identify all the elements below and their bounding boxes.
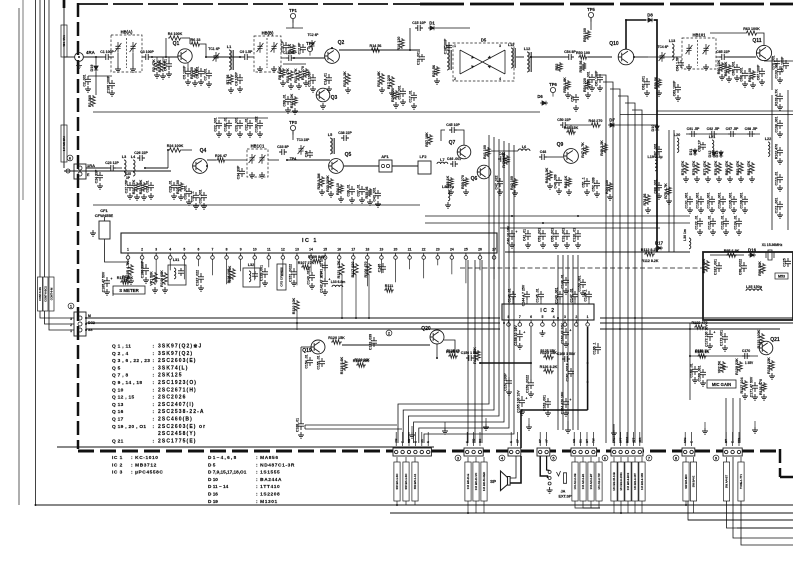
ground (288, 83, 294, 89)
capacitor C16 .001 (397, 85, 406, 99)
ground (720, 207, 726, 213)
svg-text:23: 23 (436, 248, 440, 252)
control wire rail (44, 0, 46, 277)
svg-text:IC 2: IC 2 (112, 462, 123, 468)
resistor R131 470 (759, 379, 766, 395)
resistor R18 120 (397, 37, 404, 51)
ground (705, 176, 711, 182)
capacitor C159 .0022 (525, 375, 534, 393)
svg-text:: KC-1010: : KC-1010 (131, 455, 159, 461)
IC1 pin 22 (422, 248, 426, 279)
svg-text:C66 .001: C66 .001 (731, 61, 735, 75)
capacitor R102 470 (774, 144, 783, 159)
svg-text:C151 .0022: C151 .0022 (288, 264, 292, 282)
ground (296, 83, 302, 89)
wire (613, 457, 615, 462)
svg-text:TP2: TP2 (306, 41, 314, 46)
ground (656, 193, 662, 199)
svg-text:R110 10K: R110 10K (292, 297, 296, 314)
wire RF input (83, 56, 103, 58)
ground (134, 194, 140, 200)
IC1 pin 12 (281, 248, 285, 277)
ground (257, 131, 263, 137)
svg-text:C2 .001: C2 .001 (82, 74, 86, 86)
capacitor C47 .022 (494, 175, 503, 189)
svg-text:R59 56: R59 56 (654, 77, 658, 89)
svg-text:Q 16: Q 16 (112, 409, 124, 415)
svg-text:11: 11 (267, 248, 271, 252)
ground (319, 189, 325, 195)
inductor L32 can (243, 263, 260, 287)
resistor R109 8.2K (308, 255, 326, 263)
svg-text:C19 .001: C19 .001 (416, 51, 420, 65)
wire (567, 421, 569, 427)
capacitor C37 .01 (356, 184, 365, 196)
svg-text:2SC2458(Y): 2SC2458(Y) (158, 431, 197, 437)
ground (700, 380, 706, 386)
ground (742, 81, 748, 87)
ground (563, 410, 569, 416)
resistor R34 10 (336, 183, 343, 195)
crystal X1 (762, 243, 783, 260)
svg-text:15: 15 (323, 248, 327, 252)
svg-text:1: 1 (454, 44, 456, 48)
svg-text:SW B/4-MIC: SW B/4-MIC (684, 474, 688, 489)
meter label S METER (113, 286, 145, 294)
svg-text:C105 .001: C105 .001 (728, 192, 732, 208)
transistor Q11 (752, 38, 771, 61)
trimmer capacitor (257, 42, 264, 53)
capacitor C51 .1 (581, 177, 590, 187)
ground (738, 176, 744, 182)
bus wire (500, 227, 660, 229)
ground (761, 394, 767, 400)
svg-text:HB(A): HB(A) (121, 30, 133, 35)
IC1 pin 14 (309, 248, 313, 273)
capacitor C3 100P (140, 50, 154, 60)
ground (611, 430, 617, 436)
resistor R20 220 (391, 88, 398, 102)
capacitor C18 100P (443, 38, 452, 54)
ground (683, 176, 689, 182)
resistor R63 100K (743, 27, 760, 35)
cable label 144 A/2-2-B1 (580, 462, 586, 501)
wire (582, 457, 584, 462)
connector pin wire (639, 432, 641, 446)
resistor R106 10K (228, 265, 235, 282)
wire (634, 457, 636, 462)
svg-text:R133 470: R133 470 (692, 321, 708, 325)
bottom border dashed line (78, 450, 780, 453)
svg-text:D8: D8 (647, 13, 653, 18)
wire (656, 251, 658, 253)
resistor R121 4.7K (337, 260, 344, 278)
capacitor C9 1.5P (240, 50, 253, 60)
wire (88, 75, 112, 77)
svg-text:IC 1: IC 1 (112, 455, 123, 461)
svg-text:C17 .01: C17 .01 (408, 90, 412, 102)
wire (690, 355, 758, 357)
svg-text:2SC2603(E) or: 2SC2603(E) or (158, 424, 206, 430)
cable label 144 A/2-2-TW (596, 462, 602, 501)
svg-text:R2 47K: R2 47K (152, 59, 156, 72)
svg-text:D 7,9,15,17,18,O1: D 7,9,15,17,18,O1 (208, 470, 247, 475)
wire (95, 72, 97, 95)
capacitor C187 .001 (713, 259, 722, 275)
resistor R133 470 (692, 321, 708, 329)
svg-text:R16 1.8K: R16 1.8K (377, 71, 381, 87)
svg-text:R11 47K: R11 47K (294, 68, 298, 83)
capacitor C170 (742, 349, 750, 359)
connector strip (611, 448, 643, 456)
wire (688, 501, 793, 520)
svg-text:9: 9 (240, 248, 242, 252)
control wire rail (39, 0, 41, 277)
label MIC GAIN (707, 380, 736, 388)
ground (526, 424, 532, 430)
svg-text:R150 1K: R150 1K (695, 349, 709, 353)
ground (90, 230, 96, 236)
svg-text:R33 330K: R33 330K (326, 175, 330, 192)
svg-text:R59 270: R59 270 (461, 175, 465, 189)
svg-text:Q21: Q21 (770, 337, 780, 343)
capacitor C2 .001 (82, 74, 91, 86)
svg-text:C103 .001: C103 .001 (774, 62, 778, 78)
svg-text:C155 .01: C155 .01 (316, 355, 320, 369)
wire (409, 28, 411, 50)
capacitor C171 47 50V (749, 376, 760, 397)
svg-text:C91 .5P: C91 .5P (687, 127, 700, 131)
svg-text:TP3: TP3 (289, 120, 297, 125)
wire (531, 56, 566, 58)
svg-text:D6: D6 (537, 94, 543, 99)
ground (509, 242, 515, 248)
shield box HB101 (682, 33, 716, 70)
PLL shield box (703, 252, 793, 320)
wire (457, 130, 464, 145)
wire (436, 344, 438, 358)
capacitor C57 (570, 94, 579, 103)
svg-text:C8 100P: C8 100P (234, 72, 238, 86)
IC1 pin 24 (450, 248, 454, 275)
cable label SW B/4-MIC (683, 462, 689, 501)
inductor L4 (131, 155, 136, 176)
connector pin wire (510, 432, 512, 446)
svg-text:TC1 4P: TC1 4P (208, 47, 220, 51)
wire to D8 (626, 20, 646, 49)
diode D13 (715, 150, 723, 158)
transistor Q20 (421, 326, 444, 344)
svg-text:C47 .022: C47 .022 (494, 175, 498, 189)
capacitor C151 .0022 (288, 264, 297, 282)
capacitor C144 4.7 25V (521, 284, 530, 306)
wire (392, 165, 418, 167)
ground (237, 86, 243, 92)
connector number 9 (713, 455, 719, 461)
svg-text:C34 33P: C34 33P (236, 165, 240, 179)
page edge line (22, 0, 24, 200)
routing wire (739, 398, 741, 443)
svg-text:C108 .001: C108 .001 (774, 116, 778, 132)
wire (634, 56, 648, 58)
wire (182, 149, 192, 151)
svg-text:L20: L20 (674, 133, 681, 137)
svg-text:3SK97(Q2)※J: 3SK97(Q2)※J (158, 343, 202, 350)
ground (692, 377, 698, 383)
svg-text:6: 6 (530, 315, 532, 319)
ground (375, 201, 381, 207)
ground (644, 90, 650, 96)
svg-text:C111 .001: C111 .001 (774, 198, 778, 214)
IC1 pin 26 (478, 248, 482, 271)
cable label 144 B/2-51-RED (481, 462, 487, 501)
ground (734, 75, 740, 81)
wire (436, 27, 470, 29)
capacitor C43 .001 (372, 187, 381, 201)
inductor L3 (122, 155, 126, 176)
wire to 4RA (64, 56, 75, 58)
ground (545, 410, 551, 416)
svg-text:L35 150µ: L35 150µ (746, 285, 762, 289)
ground (292, 108, 298, 114)
svg-text:Q 19 , 20 , O1: Q 19 , 20 , O1 (112, 424, 146, 430)
resistor R47 2.7K (581, 142, 588, 158)
ground (178, 194, 184, 200)
capacitor C185 47 50V (101, 271, 112, 292)
ground (104, 289, 110, 295)
ground (694, 176, 700, 182)
resistor R128 10K (473, 347, 480, 364)
wire (545, 390, 548, 420)
wire (480, 362, 531, 364)
svg-text:C190 .022: C190 .022 (254, 116, 258, 132)
svg-text:LF2: LF2 (419, 154, 427, 159)
ground (777, 77, 783, 83)
svg-text:Q 9 , 14 , 18: Q 9 , 14 , 18 (112, 380, 142, 386)
resistor R127 104 (740, 377, 747, 394)
left border dashed line (77, 3, 79, 449)
wire (530, 327, 532, 379)
resistor R126 8.2K (540, 365, 558, 373)
wire (342, 344, 430, 346)
ground (338, 196, 344, 202)
wire (441, 130, 445, 141)
wire (574, 457, 576, 462)
svg-text:R117 820: R117 820 (351, 262, 355, 278)
ground (367, 199, 373, 205)
svg-text:C64 1.5P: C64 1.5P (675, 56, 679, 71)
shield box HB(B) (254, 31, 281, 73)
wire (559, 300, 561, 304)
trimmer capacitor (271, 42, 278, 53)
capacitor C111 .001 (774, 198, 783, 214)
svg-text:1: 1 (587, 315, 589, 319)
IC U1 (IC1 KC-1010) (121, 233, 497, 253)
svg-text:4: 4 (169, 248, 171, 252)
ground (171, 193, 177, 199)
svg-text:1: 1 (127, 248, 129, 252)
wire (475, 501, 477, 513)
resistor R6 33 (190, 38, 201, 46)
ground (573, 105, 579, 111)
capacitor C17 .01 (408, 90, 417, 102)
ground (749, 176, 755, 182)
svg-text:5: 5 (541, 315, 543, 319)
wire (305, 428, 402, 430)
connector pin wire (586, 432, 588, 446)
svg-text:Q19: Q19 (302, 348, 312, 354)
capacitor C62 .001 (641, 76, 650, 90)
svg-text:R125 47: R125 47 (447, 349, 460, 353)
svg-text:C98 .5P: C98 .5P (745, 127, 758, 131)
IC2 pin 6 (529, 315, 533, 326)
wire (754, 421, 756, 427)
wire (547, 156, 563, 158)
svg-text:: ND487C1-3R: : ND487C1-3R (256, 462, 295, 468)
capacitor C103 .001 (706, 192, 715, 208)
connector strip (723, 448, 742, 456)
ground (547, 487, 553, 493)
svg-text:2: 2 (454, 77, 456, 81)
ground (563, 288, 569, 294)
svg-text:C148 .1: C148 .1 (583, 289, 587, 301)
ground (128, 278, 134, 284)
svg-text:R50 330: R50 330 (605, 180, 609, 194)
cable label 144 3/2-1RA (61, 125, 67, 162)
cable label 144 B/2-21-VO (473, 462, 479, 501)
ground (585, 92, 591, 98)
svg-text:R96 56K: R96 56K (758, 261, 762, 276)
connector pin wire (539, 432, 541, 446)
capacitor C27 15P (124, 179, 133, 193)
ground (528, 391, 534, 397)
routing wire (419, 143, 509, 443)
svg-text:R17 220: R17 220 (387, 75, 391, 89)
resistor R94 22K (702, 258, 709, 273)
IC and diode parts list (112, 455, 295, 505)
svg-text:D11: D11 (689, 149, 693, 156)
svg-text:C144 4.7 25V: C144 4.7 25V (521, 284, 525, 306)
jack JA EXT.SP (548, 471, 572, 499)
ground (206, 81, 212, 87)
ground (389, 90, 395, 96)
connector pin wire (592, 432, 594, 446)
capacitor C147 .01 (569, 288, 578, 302)
wire (620, 457, 622, 462)
wire (111, 56, 114, 58)
IC1 pin 11 (267, 248, 271, 268)
ground (607, 194, 613, 200)
wire (339, 49, 420, 51)
resistor R48 270 (589, 119, 603, 127)
connector pin wire (732, 432, 734, 446)
ground (723, 229, 729, 235)
capacitor C108 .001 (774, 116, 783, 132)
svg-text:L30 1m: L30 1m (683, 229, 687, 241)
routing wire (625, 103, 635, 443)
wire (697, 40, 699, 66)
resistor R59 270 (461, 175, 468, 189)
svg-text:L8 22µ: L8 22µ (442, 185, 454, 189)
cable label SW B/8-1-A1 (412, 462, 418, 501)
wire to 1RA (64, 170, 171, 172)
svg-text:L22: L22 (765, 137, 772, 141)
routing wire (408, 139, 499, 443)
ground (97, 183, 103, 189)
ground (271, 66, 277, 72)
antenna wire border crossing (63, 0, 66, 8)
wire (590, 18, 592, 30)
resistor R15 2.2K (343, 71, 350, 87)
svg-text:+: + (569, 329, 571, 333)
routing wire (668, 130, 670, 252)
svg-text:1RA: 1RA (87, 163, 95, 168)
potentiometer VR1 50K (149, 271, 160, 286)
IC1 pin 16 (337, 248, 341, 269)
svg-text:VR2 5K: VR2 5K (717, 360, 721, 373)
ground (597, 85, 603, 91)
svg-text:: 1TT410: : 1TT410 (256, 484, 280, 490)
right border step dashed line (779, 449, 781, 477)
wire (599, 501, 600, 508)
resistor R125 47 (446, 350, 460, 358)
svg-text:D7: D7 (609, 118, 615, 123)
svg-text:2: 2 (575, 315, 577, 319)
capacitor C4 .001 (163, 59, 172, 71)
svg-text:3: 3 (499, 44, 501, 48)
capacitor C44 (498, 152, 506, 162)
trimmer capacitor (115, 42, 122, 53)
IC1 pin 19 (380, 248, 384, 274)
connector pin wire (632, 432, 634, 446)
svg-text:IC 1: IC 1 (302, 238, 318, 244)
svg-text:C123 .01: C123 .01 (720, 215, 724, 229)
transistor Q1 (173, 41, 193, 63)
cable label SW A/4-BT (723, 462, 729, 501)
connector number 2 (386, 330, 392, 336)
inductor (174, 268, 176, 279)
diode D11 (689, 148, 697, 156)
wire (467, 457, 469, 462)
connector pin wire (402, 432, 404, 446)
diode D10 (651, 124, 659, 132)
wire (414, 501, 416, 505)
svg-text:Q5: Q5 (345, 152, 352, 158)
svg-text:R15 2.2K: R15 2.2K (343, 71, 347, 87)
svg-text:D5: D5 (481, 38, 487, 43)
svg-text:2SC2026: 2SC2026 (158, 395, 187, 401)
capacitor C162 47 10V (560, 323, 571, 344)
wire (648, 56, 682, 58)
ground (298, 432, 304, 438)
wire (575, 501, 600, 508)
svg-text:C122 .01: C122 .01 (694, 215, 698, 229)
resistor R120 15K (328, 336, 345, 344)
svg-text:C110 .01: C110 .01 (774, 171, 778, 185)
ground (247, 131, 253, 137)
wire (483, 457, 485, 462)
svg-text:10: 10 (253, 248, 257, 252)
capacitor C38 22P (338, 131, 352, 141)
ground (719, 74, 725, 80)
wire (355, 276, 357, 318)
wire (344, 165, 379, 167)
svg-text:M53: M53 (778, 275, 785, 279)
ground (750, 82, 756, 88)
ground (497, 189, 503, 195)
wire (693, 457, 695, 462)
svg-text:R112 8.2K: R112 8.2K (642, 259, 659, 263)
